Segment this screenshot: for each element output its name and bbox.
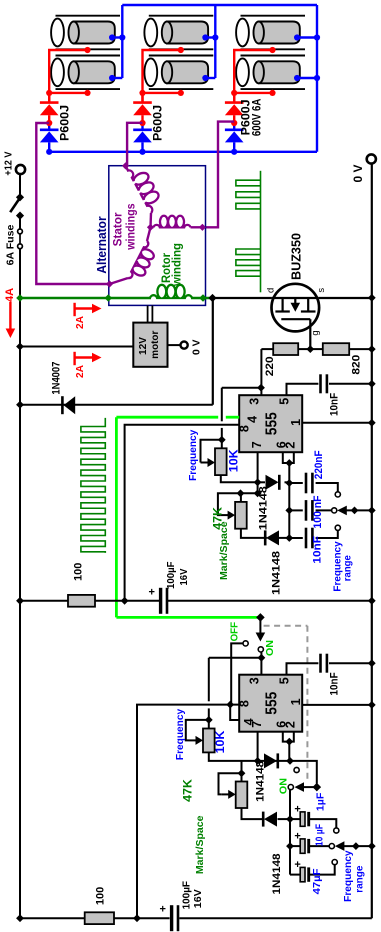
svg-text:BUZ350: BUZ350	[289, 233, 304, 280]
cap body	[319, 374, 322, 393]
motor shaft coupling	[147, 306, 149, 323]
resistor 820	[310, 348, 323, 350]
svg-text:100: 100	[73, 563, 85, 581]
annotation 2A arrow (motor)	[73, 352, 75, 365]
wire - pin 7 down	[257, 452, 259, 493]
pot body	[236, 782, 248, 809]
diode 1N4007 (rotor flyback)	[64, 396, 76, 414]
wire - 555#2 pin 4 to V+	[230, 705, 239, 720]
cap body	[300, 839, 305, 853]
rectifier diode D3 blue (from - bus)	[233, 123, 235, 129]
diode 1N4148 (d)	[264, 812, 277, 827]
wire - pot bottom to pin 7 line	[209, 752, 290, 761]
capacitor 10nF (555 #1 pin5)	[287, 384, 319, 395]
svg-text:+: +	[294, 831, 300, 843]
wire - pin3 line to frequency pot (with hop)	[222, 387, 261, 389]
switch frequency range (555#1) wiper	[337, 506, 347, 516]
rectifier diode D2 blue (from - bus)	[141, 123, 143, 129]
resistor 220	[261, 348, 273, 350]
annotation gate waveform comb (green)	[81, 418, 105, 553]
svg-text:1N4148: 1N4148	[270, 551, 282, 595]
svg-text:16V: 16V	[192, 889, 204, 908]
svg-text:+: +	[294, 859, 300, 871]
cap body	[305, 473, 308, 494]
rotor winding (green coil)	[150, 285, 192, 298]
node - phase 3 junction	[231, 120, 237, 126]
alternator box	[109, 166, 206, 306]
wire - phase 3 (purple) to stator	[202, 122, 234, 228]
contact OFF	[243, 641, 248, 646]
wire - group 1 cell positives (red)	[49, 50, 87, 93]
wire - 47K#2 bottom via diode	[242, 808, 264, 819]
svg-text:1N4148: 1N4148	[254, 761, 266, 802]
diode body	[264, 753, 277, 768]
svg-text:Frequency: Frequency	[342, 850, 354, 902]
svg-text:1N4148: 1N4148	[258, 486, 270, 530]
timer 555 U1	[239, 395, 302, 452]
switch (on/off)	[16, 193, 24, 201]
capacitor 100uF 16V (555#1)	[159, 588, 162, 614]
pot body	[215, 448, 227, 475]
MOSFET gate lead	[309, 319, 311, 349]
annotation 2A arrow (rotor)	[73, 303, 75, 316]
svg-text:Mark/Space: Mark/Space	[194, 815, 206, 874]
wire - reset pin 4 (bright green) from gate switch	[116, 416, 218, 419]
wire - gate node	[306, 345, 314, 353]
wire - 555#2 pin 1 to 0V	[302, 704, 372, 706]
svg-text:range: range	[353, 865, 365, 892]
svg-text:4A: 4A	[4, 288, 16, 302]
ganged switch link (dashed)	[264, 625, 308, 627]
capacitor 10nF (555 #2 pin5)	[287, 663, 319, 675]
switch run OFF/ON common	[256, 613, 265, 622]
svg-text:1: 1	[289, 698, 303, 705]
svg-text:motor: motor	[150, 331, 161, 359]
wire - phase 1 (purple) to stator	[36, 123, 109, 284]
svg-text:d: d	[266, 288, 277, 293]
resistor 100 (555#1 supply)	[68, 595, 95, 607]
svg-text:P600J: P600J	[153, 105, 165, 141]
wire - pins 6+2 join #2	[283, 732, 294, 742]
cap body	[300, 867, 305, 881]
resistor 100 (555#2 supply)	[85, 912, 114, 924]
svg-text:2: 2	[284, 721, 298, 728]
resistor 220 body	[273, 343, 298, 355]
capacitor 220nF	[289, 482, 303, 484]
svg-text:10K: 10K	[229, 449, 241, 473]
svg-text:3: 3	[247, 677, 261, 684]
wire - bottom V+ rail	[20, 917, 170, 919]
svg-text:Stator: Stator	[113, 212, 125, 247]
motor 0V terminal	[168, 344, 181, 346]
node - phase 1 junction	[46, 120, 52, 126]
svg-text:47K: 47K	[182, 778, 194, 802]
battery cell 3A	[236, 16, 305, 50]
wire - node B2 to range switch common	[290, 761, 317, 784]
capacitor 47uF	[290, 874, 300, 876]
wire - 47K bottom via diode	[241, 529, 267, 538]
wire - 555#1 pin 1 to 0V	[302, 422, 372, 424]
svg-text:windings: windings	[126, 203, 138, 250]
capacitor 1uF	[290, 818, 300, 820]
svg-text:220: 220	[264, 356, 276, 376]
svg-text:100µF: 100µF	[165, 561, 177, 589]
svg-text:7: 7	[250, 441, 264, 448]
annotation drain waveform (green)	[260, 171, 262, 292]
svg-text:2A: 2A	[74, 316, 86, 329]
svg-text:8: 8	[237, 425, 251, 432]
svg-text:10nF: 10nF	[312, 536, 324, 564]
wire - group 3 cell negatives to bus	[297, 36, 317, 38]
wire - pin 7 #2 down	[257, 732, 259, 761]
stator winding 1 (phase 2 leg)	[128, 170, 159, 213]
svg-text:12V: 12V	[138, 337, 149, 355]
svg-text:P600J: P600J	[240, 99, 252, 135]
svg-text:10 µF: 10 µF	[314, 824, 326, 847]
svg-text:s: s	[316, 288, 327, 293]
node - stator star point	[147, 224, 154, 231]
wire - timing cap bank vertical	[288, 463, 290, 538]
svg-text:100: 100	[95, 887, 107, 905]
svg-text:P600J: P600J	[60, 105, 72, 141]
pot body	[235, 502, 247, 529]
svg-text:range: range	[342, 555, 354, 581]
cap body	[305, 500, 308, 521]
wire - pot bottom to pin 7	[221, 475, 258, 482]
battery cell 1A	[51, 16, 120, 50]
svg-text:Frequency: Frequency	[174, 709, 186, 760]
12V motor	[133, 323, 167, 367]
node - phase 2 junction	[139, 120, 145, 126]
pot body	[203, 729, 215, 753]
diode 1N4148 (b)	[266, 530, 279, 545]
svg-text:winding: winding	[172, 243, 184, 287]
MOSFET BUZ350 U?	[272, 284, 320, 332]
wire - 220 to 555 pin3	[260, 349, 262, 395]
battery cell 3B	[236, 56, 305, 90]
capacitor 10nF (range)	[289, 537, 303, 539]
wire - group 2 cell negatives to bus	[205, 36, 215, 38]
svg-text:Alternator: Alternator	[94, 216, 109, 273]
rectifier diode D1 blue (from - bus)	[48, 123, 50, 129]
svg-text:1N4007: 1N4007	[51, 362, 63, 395]
svg-text:4: 4	[245, 416, 259, 423]
switch frequency range (555#2) wiper	[335, 841, 345, 851]
contact ON	[258, 647, 263, 652]
stator winding 3 (phase 1 leg)	[128, 241, 154, 278]
svg-text:+12 V: +12 V	[2, 152, 14, 176]
rectifier diode D2 red (to battery +)	[141, 93, 143, 102]
wire - drain down to 1N4007	[212, 298, 214, 405]
svg-text:600V 6A: 600V 6A	[252, 99, 264, 136]
wire - group 2 cell positives (red)	[143, 50, 181, 93]
wire - blue diode common return	[49, 151, 317, 153]
svg-text:0 V: 0 V	[191, 339, 203, 355]
wire - +12V rail down left side	[19, 249, 21, 919]
wire - MOSFET source to 0V	[319, 297, 372, 299]
svg-text:10K: 10K	[215, 730, 227, 754]
svg-text:ON: ON	[264, 640, 276, 656]
svg-text:+: +	[294, 804, 300, 816]
diode 1N4148 (a)	[258, 481, 265, 483]
svg-text:10nF: 10nF	[328, 393, 340, 416]
svg-text:555: 555	[264, 412, 281, 435]
rectifier diode D3 red (to battery +)	[233, 93, 235, 102]
rectifier diode D1 red (to battery +)	[48, 93, 50, 102]
wire - group 3 cell positives (red)	[234, 50, 272, 93]
svg-text:10nF: 10nF	[329, 672, 341, 695]
svg-text:8: 8	[238, 700, 252, 707]
svg-text:100 nF: 100 nF	[312, 495, 324, 528]
svg-text:Frequency: Frequency	[187, 430, 199, 481]
cap body	[300, 812, 305, 826]
wire - +12V feed	[19, 174, 21, 197]
svg-text:220nF: 220nF	[313, 450, 325, 479]
wire - pin3 node to freq pot #2 (hop over V+)	[209, 657, 262, 659]
wire - group 1 cell negatives to bus	[112, 36, 122, 38]
svg-text:1N4148: 1N4148	[271, 854, 283, 895]
wire - battery negative bus (blue)	[122, 4, 317, 6]
wire - ON contact down to cap bank	[289, 790, 291, 875]
wire - V+ filter rail	[20, 600, 159, 602]
svg-text:555: 555	[264, 692, 281, 715]
wire - ON contact to 555#2 pin3	[260, 652, 262, 675]
svg-text:4: 4	[242, 718, 256, 725]
svg-text:5: 5	[278, 398, 292, 405]
wire - rotor to MOSFET drain	[191, 297, 213, 300]
svg-text:820: 820	[351, 355, 363, 375]
cap body	[305, 528, 308, 549]
stator winding 2 (phase 3 leg)	[154, 216, 191, 228]
battery cell 2A	[144, 16, 213, 50]
capacitor 100nF	[289, 509, 303, 511]
wire - +12V to rotor winding (green)	[20, 297, 151, 300]
wire - phase 2 (purple) to stator	[127, 123, 142, 166]
svg-text:1µF: 1µF	[315, 792, 327, 811]
battery cell 2B	[144, 56, 213, 90]
svg-text:Mark/Space: Mark/Space	[218, 521, 230, 580]
svg-text:16V: 16V	[178, 569, 190, 586]
capacitor 10uF	[290, 845, 300, 847]
wire - OFF contact to V+ line	[231, 643, 243, 704]
svg-text:OFF: OFF	[229, 621, 241, 641]
svg-text:1: 1	[289, 419, 303, 426]
cap body	[319, 654, 322, 673]
diode body	[266, 475, 279, 490]
svg-text:100µF: 100µF	[180, 880, 192, 909]
wire - 555#1 pin 8 V+	[125, 425, 240, 601]
svg-text:g: g	[310, 330, 321, 335]
svg-text:+: +	[159, 904, 165, 916]
capacitor 100uF 16V (555#2)	[170, 905, 173, 931]
terminal 0 V	[367, 154, 376, 163]
wire - motor feed	[20, 346, 133, 348]
svg-text:2A: 2A	[74, 365, 86, 378]
wire - 555#2 pin 8 V+	[137, 705, 239, 919]
svg-text:6A Fuse: 6A Fuse	[4, 225, 16, 266]
wire - pins 6+2 join	[283, 452, 294, 463]
contact (open)	[294, 767, 299, 772]
wire - 47K branch	[241, 492, 258, 494]
svg-text:5: 5	[278, 677, 292, 684]
svg-text:+: +	[148, 586, 154, 598]
wire - 0V rail down right side	[371, 164, 373, 918]
wire - bottom 0V return	[179, 917, 371, 919]
terminal +12 V	[16, 165, 25, 174]
fuse 6A	[18, 229, 23, 234]
wire - 1N4007 branch	[20, 404, 213, 406]
svg-text:2: 2	[284, 442, 298, 449]
contact ON (caps)	[288, 785, 293, 790]
resistor 820 body	[323, 343, 349, 355]
svg-text:47µF: 47µF	[311, 868, 323, 895]
svg-text:ON: ON	[278, 778, 290, 794]
svg-text:0 V: 0 V	[353, 164, 365, 182]
battery cell 1B	[51, 56, 120, 90]
timer 555 U2	[239, 675, 302, 732]
svg-text:3: 3	[247, 398, 261, 405]
